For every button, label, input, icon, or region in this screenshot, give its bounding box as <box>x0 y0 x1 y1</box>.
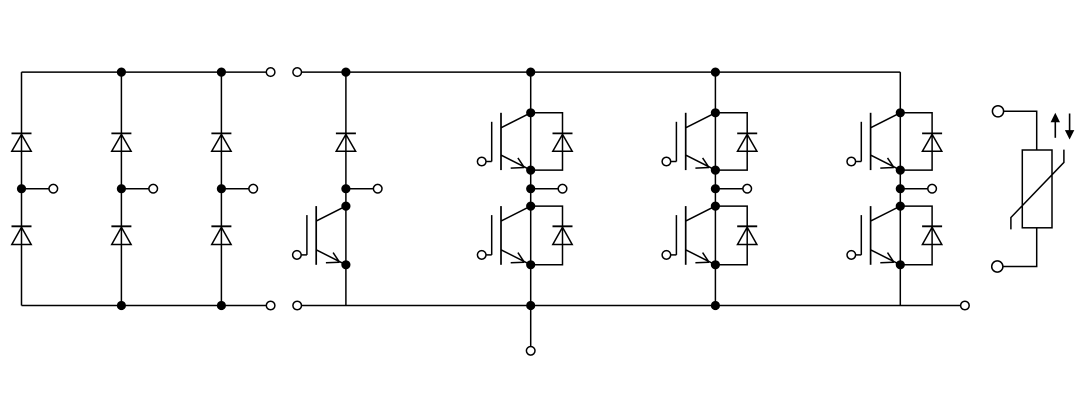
junction DC- rail / leg V <box>711 301 720 310</box>
wire rectifier DC+ top rail <box>22 71 267 73</box>
diode D2 (rectifier upper) <box>111 133 131 151</box>
junction lower collector W <box>896 202 905 211</box>
arrow down (resistance) <box>1065 114 1074 140</box>
junction upper collector V <box>711 108 720 117</box>
thermistor diagonal stroke <box>1011 150 1064 230</box>
transistor Q2 high-side IGBT V <box>662 113 715 170</box>
junction rectifier top rail / leg 3 <box>217 68 226 77</box>
junction chopper / DC+ rail <box>341 68 350 77</box>
terminal inverter DC- input <box>293 301 302 310</box>
junction rectifier bottom rail / leg 3 <box>217 301 226 310</box>
junction lower collector U <box>526 202 535 211</box>
wire freewheel branch high-side V <box>715 113 747 170</box>
transistor Q3 high-side IGBT W <box>847 113 900 170</box>
diode D8 freewheel high-side U <box>553 133 573 151</box>
transistor Q4 low-side IGBT U <box>477 206 530 265</box>
node brake resistor junction <box>341 184 350 193</box>
wire stub to AC input L3 terminal <box>221 188 249 190</box>
terminal AC input L2 <box>149 184 158 193</box>
transistor Q5 low-side IGBT V <box>662 206 715 265</box>
terminal brake resistor <box>373 184 382 193</box>
terminal thermistor 1 <box>992 106 1003 117</box>
diode D1 (rectifier upper) <box>12 133 32 151</box>
diode D10 freewheel high-side W <box>922 133 942 151</box>
junction chopper IGBT collector <box>341 202 350 211</box>
wire stub to bottom DC- terminal <box>530 306 532 347</box>
wire stub to phase terminal V <box>715 188 743 190</box>
wire freewheel branch low-side V <box>715 206 747 265</box>
thermistor R_NTC body <box>1022 150 1052 228</box>
diode D7 (brake chopper freewheel) <box>336 133 356 151</box>
terminal AC input L1 <box>49 184 58 193</box>
diode D4 (rectifier lower) <box>12 226 32 244</box>
terminal DC- bottom centre <box>526 347 535 356</box>
wire inverter DC+ top rail <box>302 71 901 73</box>
terminal AC input L3 <box>249 184 258 193</box>
wire stub to phase terminal U <box>531 188 559 190</box>
junction rectifier bottom rail / leg 2 <box>117 301 126 310</box>
junction DC+ rail / leg V <box>711 68 720 77</box>
junction upper emitter V <box>711 166 720 175</box>
node AC input L1 junction <box>17 184 26 193</box>
junction chopper IGBT emitter <box>341 260 350 269</box>
wire stub to phase terminal W <box>900 188 928 190</box>
node phase output U <box>526 184 535 193</box>
wire thermistor bottom lead <box>1003 228 1037 267</box>
wire freewheel branch low-side U <box>531 206 563 265</box>
junction upper emitter U <box>526 166 535 175</box>
junction DC+ rail / leg U <box>526 68 535 77</box>
node AC input L3 junction <box>217 184 226 193</box>
wire freewheel branch low-side W <box>900 206 932 265</box>
junction lower emitter W <box>896 260 905 269</box>
wire stub to AC input L2 terminal <box>121 188 148 190</box>
wire freewheel branch high-side W <box>900 113 932 170</box>
diode D13 freewheel low-side W <box>922 226 942 244</box>
wire inverter DC- bottom rail <box>302 305 961 307</box>
transistor Q6 low-side IGBT W <box>847 206 900 265</box>
diode D6 (rectifier lower) <box>211 226 231 244</box>
transistor Q7 brake chopper IGBT <box>293 206 346 265</box>
wire inverter leg W <box>899 72 901 305</box>
junction lower emitter V <box>711 260 720 269</box>
diode D11 freewheel low-side U <box>553 226 573 244</box>
arrow up (temperature) <box>1051 113 1060 138</box>
wire inverter leg V <box>714 72 716 305</box>
diode D12 freewheel low-side V <box>737 226 757 244</box>
wire rectifier leg 3 <box>220 72 222 305</box>
node phase output V <box>711 184 720 193</box>
node phase output W <box>896 184 905 193</box>
junction upper collector U <box>526 108 535 117</box>
wire thermistor top lead <box>1004 111 1037 150</box>
diode D9 freewheel high-side V <box>737 133 757 151</box>
terminal phase output V <box>743 184 752 193</box>
terminal thermistor 2 <box>992 261 1003 272</box>
wire rectifier leg 2 <box>120 72 122 305</box>
terminal DC- right <box>961 301 970 310</box>
terminal rectifier DC+ output <box>266 68 275 77</box>
junction upper collector W <box>896 108 905 117</box>
node AC input L2 junction <box>117 184 126 193</box>
wire brake chopper leg <box>345 72 347 305</box>
terminal phase output W <box>928 184 937 193</box>
junction upper emitter W <box>896 166 905 175</box>
wire stub to AC input L1 terminal <box>22 188 50 190</box>
wire stub to brake terminal <box>346 188 374 190</box>
junction rectifier top rail / leg 2 <box>117 68 126 77</box>
terminal rectifier DC- output <box>266 301 275 310</box>
wire freewheel branch high-side U <box>531 113 563 170</box>
junction lower emitter U <box>526 260 535 269</box>
junction lower collector V <box>711 202 720 211</box>
wire rectifier leg 1 <box>21 72 23 305</box>
wire inverter leg U <box>530 72 532 305</box>
terminal inverter DC+ input <box>293 68 302 77</box>
diode D5 (rectifier lower) <box>111 226 131 244</box>
terminal phase output U <box>558 184 567 193</box>
diode D3 (rectifier upper) <box>211 133 231 151</box>
transistor Q1 high-side IGBT U <box>477 113 530 170</box>
wire rectifier DC- bottom rail <box>22 305 267 307</box>
junction DC- rail / leg U <box>526 301 535 310</box>
